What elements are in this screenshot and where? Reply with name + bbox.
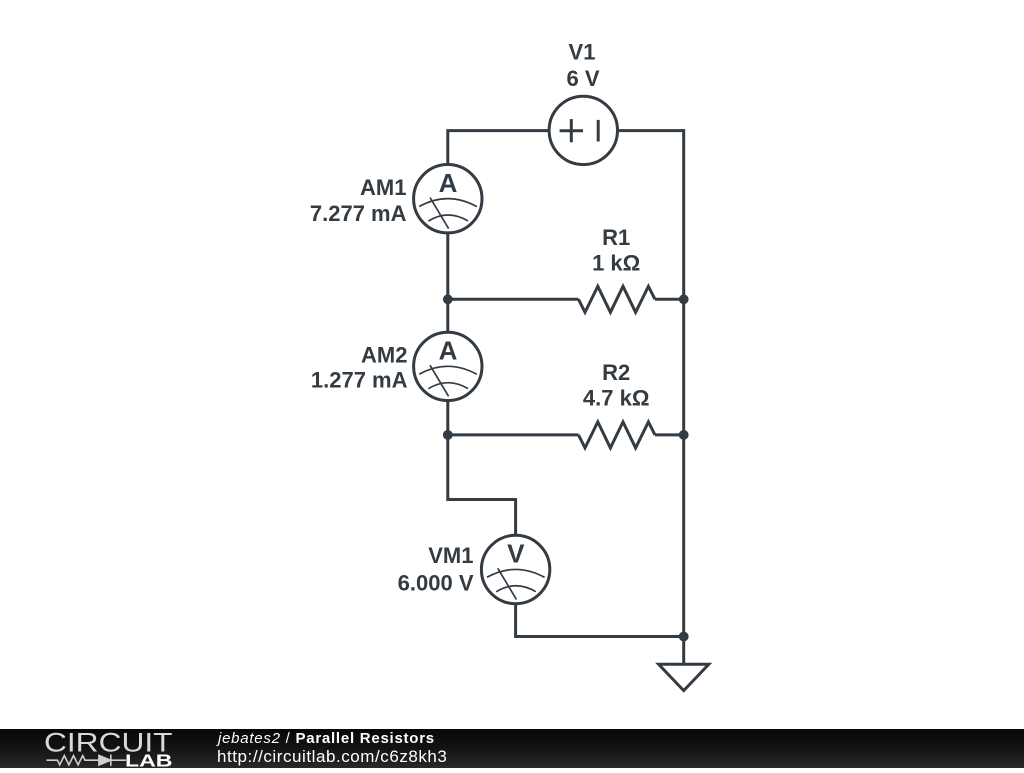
svg-text:A: A	[439, 336, 458, 366]
svg-text:7.277 mA: 7.277 mA	[310, 201, 407, 226]
wire AM1 to AM2 through node A	[446, 233, 449, 333]
ammeter AM1	[414, 165, 482, 233]
svg-text:6.000 V: 6.000 V	[398, 571, 474, 596]
wire right rail	[682, 129, 685, 664]
svg-text:1.277 mA: 1.277 mA	[311, 368, 408, 393]
footer bar	[0, 729, 1024, 768]
svg-text:4.7 kΩ: 4.7 kΩ	[583, 386, 650, 411]
svg-text:R1: R1	[602, 225, 630, 250]
wire R2 right lead	[655, 433, 684, 436]
footer url text	[217, 748, 447, 765]
svg-text:VM1: VM1	[428, 543, 473, 568]
resistor R2	[579, 422, 656, 448]
node A junction dot	[443, 294, 453, 304]
wire V1 right lead	[617, 129, 683, 132]
svg-text:R2: R2	[602, 360, 630, 385]
wire R1 right lead	[655, 298, 684, 301]
wire node B to R2	[448, 433, 579, 436]
ammeter AM2	[414, 332, 482, 400]
svg-text:AM2: AM2	[361, 342, 407, 367]
wire VM1 bottom to ground node	[516, 604, 684, 637]
node R1-rail junction dot	[679, 294, 689, 304]
svg-text:1 kΩ: 1 kΩ	[592, 251, 640, 276]
node ground junction dot	[679, 632, 689, 642]
wire AM2 to node B and down	[446, 400, 449, 501]
CircuitLab logo	[0, 729, 200, 768]
svg-text:6 V: 6 V	[566, 66, 599, 91]
wire node B down to VM1	[448, 500, 516, 536]
svg-text:AM1: AM1	[360, 175, 406, 200]
svg-text:V1: V1	[569, 40, 596, 65]
ground	[659, 664, 709, 690]
voltmeter VM1	[481, 535, 549, 603]
node R2-rail junction dot	[679, 430, 689, 440]
wire node A to R1	[448, 298, 579, 301]
resistor R1	[579, 286, 656, 312]
node B junction dot	[443, 430, 453, 440]
voltage source V1	[549, 96, 617, 164]
svg-text:LAB: LAB	[125, 750, 173, 768]
footer title text	[218, 731, 435, 747]
svg-text:A: A	[439, 168, 458, 198]
svg-text:V: V	[507, 539, 525, 569]
wire V1 left lead	[448, 131, 549, 165]
